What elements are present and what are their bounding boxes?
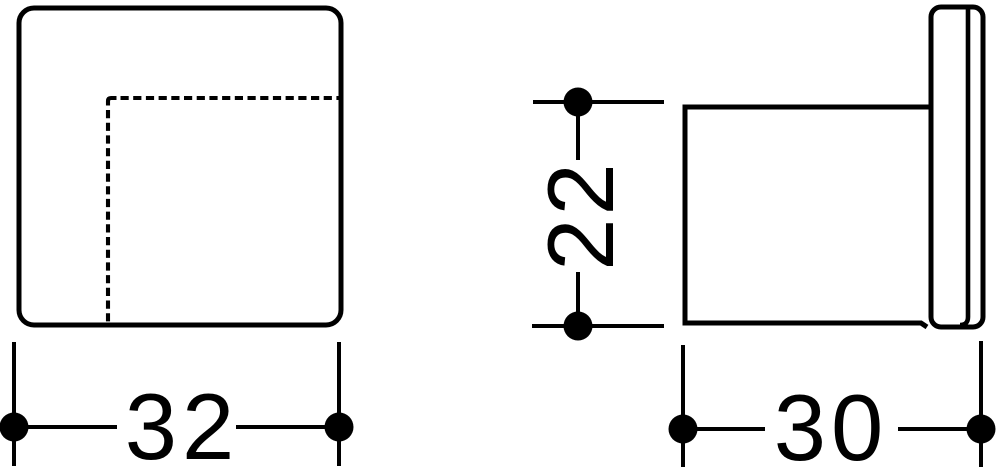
svg-text:30: 30 xyxy=(774,375,889,472)
svg-text:22: 22 xyxy=(528,160,633,271)
svg-text:32: 32 xyxy=(125,374,240,472)
